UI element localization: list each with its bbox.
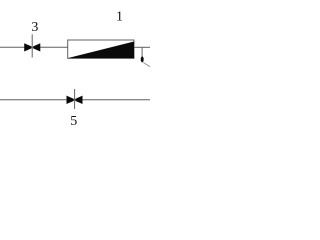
- wire: diagonal stub: [143, 63, 150, 68]
- node stem at right: [141, 47, 143, 56]
- component U1 box: [68, 40, 134, 58]
- svg-text:1: 1: [116, 10, 123, 25]
- wire: top pipe left segment: [0, 46, 68, 48]
- svg-text:3: 3: [31, 20, 38, 35]
- valve V5 stem: [74, 89, 76, 109]
- wire: top pipe right segment: [134, 46, 150, 48]
- valve V3 body: [24, 43, 40, 51]
- valve V5 body: [67, 96, 83, 104]
- wire: bottom pipe: [0, 99, 150, 101]
- component U1 wedge: [68, 42, 134, 59]
- node dot: [141, 56, 144, 62]
- valve V3 stem: [31, 34, 33, 57]
- svg-text:5: 5: [70, 114, 77, 129]
